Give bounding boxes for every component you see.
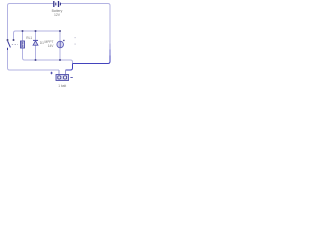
svg-text:14V: 14V xyxy=(48,44,55,48)
svg-text:MPPT: MPPT xyxy=(45,40,54,44)
svg-text:D1: D1 xyxy=(40,41,44,45)
svg-text:12V: 12V xyxy=(54,13,61,17)
svg-text:1 batt: 1 batt xyxy=(58,84,66,88)
svg-text:RL1: RL1 xyxy=(26,36,32,40)
